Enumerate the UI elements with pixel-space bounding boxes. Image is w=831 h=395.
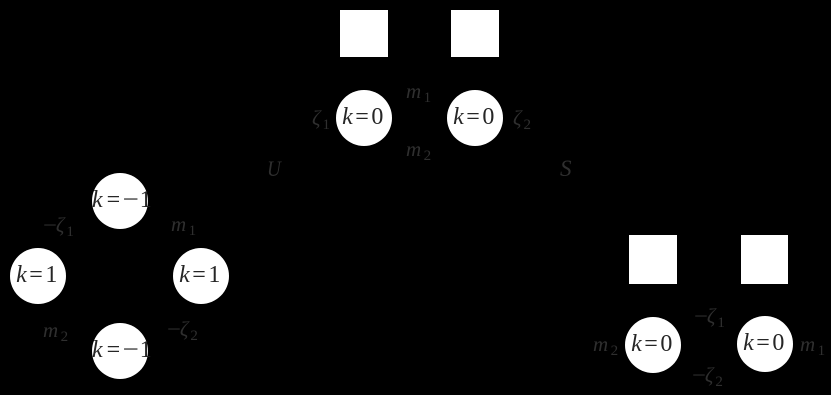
label S — [560, 157, 572, 180]
label zeta1 (top group) — [312, 108, 330, 129]
gauge node k=1 (left group left) — [10, 248, 66, 304]
label m2 (top group) — [406, 139, 431, 160]
square flavor node F3 (bottom-right group left) — [629, 235, 677, 284]
label U — [267, 158, 283, 181]
label m1 (top group) — [406, 81, 431, 102]
gauge node k=-1 (left group bottom) — [92, 323, 148, 379]
square flavor node F2 (top group right) — [451, 10, 499, 57]
label -zeta1 (bottom-right group) — [694, 306, 725, 327]
label m2 (bottom-right group) — [593, 334, 618, 355]
label zeta2 (top group) — [513, 108, 531, 129]
label m1 (bottom-right group) — [800, 334, 825, 355]
gauge node k=0 (top group left) — [336, 90, 392, 146]
gauge node k=-1 (left group top) — [92, 173, 148, 229]
gauge node k=0 (bottom-right group right) — [737, 316, 793, 372]
gauge node k=0 (bottom-right group left) — [625, 317, 681, 373]
gauge node k=0 (top group right) — [447, 90, 503, 146]
square flavor node F4 (bottom-right group right) — [741, 235, 788, 284]
label -zeta2 (bottom-right group) — [692, 365, 723, 386]
label m2 (left group) — [43, 320, 68, 341]
label m1 (left group) — [171, 214, 196, 235]
label -zeta1 (left group) — [43, 215, 74, 236]
gauge node k=1 (left group right) — [173, 248, 229, 304]
square flavor node F1 (top group left) — [340, 10, 388, 57]
label -zeta2 (left group) — [167, 319, 198, 340]
